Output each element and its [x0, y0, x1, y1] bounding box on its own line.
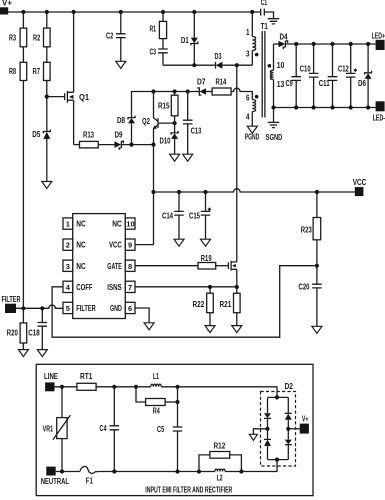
node aux phasing dot — [255, 95, 259, 99]
svg-text:R2: R2 — [33, 33, 41, 42]
svg-text:C3: C3 — [150, 47, 157, 56]
svg-text:VCC: VCC — [353, 178, 367, 187]
T1 secondary winding 10-13 — [270, 70, 273, 79]
capacitor C12 polarized — [350, 44, 352, 108]
svg-text:5: 5 — [66, 304, 70, 313]
capacitor C14 — [178, 192, 180, 211]
node Q2 emitter junction — [151, 143, 155, 147]
resistor R22 — [209, 287, 211, 293]
svg-text:D2: D2 — [285, 382, 294, 391]
ground C15 — [201, 239, 211, 246]
svg-text:V+: V+ — [2, 0, 12, 8]
T1 primary winding 1-3 — [251, 12, 253, 37]
resistor R13 — [80, 141, 99, 148]
ground C18 — [37, 350, 47, 357]
node bridge bottom — [268, 459, 289, 461]
diode D2a upper-left — [267, 397, 269, 413]
svg-text:FILTER: FILTER — [76, 304, 96, 313]
node FILTER pad — [5, 304, 16, 313]
svg-text:Q1: Q1 — [79, 93, 90, 102]
resistor RT1 — [77, 383, 96, 390]
ground D5 — [42, 182, 52, 189]
node drain junction — [235, 63, 239, 67]
node Q1 gate junction — [45, 95, 49, 99]
svg-text:NC: NC — [112, 220, 122, 229]
resistor R7 — [44, 62, 51, 80]
svg-text:9: 9 — [128, 241, 132, 250]
node VCC rail junction — [151, 190, 155, 194]
svg-text:R12: R12 — [214, 442, 226, 451]
op-amp U1 IC body — [73, 214, 126, 319]
wire Q1 drain to top rail — [73, 12, 75, 92]
pin 9 box — [125, 239, 135, 250]
pin 7 box — [125, 281, 135, 292]
svg-text:C9: C9 — [286, 79, 294, 88]
T1 aux winding 6-4 — [252, 100, 255, 112]
svg-text:R21: R21 — [220, 300, 232, 309]
wire pin4 to PGND — [251, 112, 253, 127]
wire LINE to RT1 — [55, 386, 77, 388]
wire L2 to bridge bottom — [225, 460, 277, 472]
svg-text:D4: D4 — [280, 33, 288, 42]
svg-text:LED-: LED- — [373, 114, 385, 123]
svg-text:10: 10 — [277, 61, 285, 70]
svg-text:LINE: LINE — [44, 372, 59, 381]
svg-text:D8: D8 — [117, 116, 125, 125]
wire M2 source to ISNS node — [236, 269, 238, 287]
pin 10 box — [125, 218, 135, 229]
ground PGND — [247, 126, 257, 133]
svg-text:4: 4 — [246, 113, 250, 122]
svg-text:R22: R22 — [193, 300, 205, 309]
svg-text:R19: R19 — [201, 254, 212, 263]
svg-text:D1: D1 — [181, 36, 189, 45]
svg-text:L1: L1 — [153, 372, 159, 381]
fuse F1 — [80, 466, 98, 473]
zener D7 — [197, 88, 201, 95]
node LED+ pad — [376, 40, 385, 50]
capacitor C20 — [316, 266, 318, 284]
ground D10 — [170, 154, 180, 161]
ground R21 — [232, 326, 242, 333]
svg-text:NEUTRAL: NEUTRAL — [41, 477, 69, 486]
wire VCC rail with hop — [154, 189, 355, 192]
wire R2-R7 — [46, 47, 48, 63]
svg-text:D6: D6 — [358, 79, 366, 88]
svg-text:C4: C4 — [99, 424, 107, 433]
node bridge left mid — [265, 427, 269, 431]
resistor R14 — [212, 88, 231, 95]
wire Q1 source corner to R13 — [74, 144, 80, 146]
wire Q2 emitter down — [153, 129, 155, 145]
svg-text:C13: C13 — [191, 126, 202, 135]
node LED- pad — [376, 101, 385, 111]
svg-text:D9: D9 — [115, 130, 123, 139]
node NEUTRAL pad — [46, 467, 55, 476]
ground C13 — [183, 154, 193, 161]
svg-text:NC: NC — [76, 241, 86, 250]
svg-text:SGND: SGND — [266, 133, 283, 142]
inductor L2 — [215, 469, 225, 471]
node V+ output pad — [300, 424, 309, 434]
svg-text:V+: V+ — [302, 415, 309, 424]
node R23/C20 junction — [315, 264, 319, 268]
resistor R2 — [46, 12, 48, 28]
svg-text:C2: C2 — [106, 31, 114, 40]
wire GATE pin8 to R19 — [135, 265, 198, 267]
svg-text:VCC: VCC — [109, 241, 122, 250]
wire R14 to pin6 with hop — [231, 88, 252, 99]
wire left rail R8 to FILTER node — [22, 81, 24, 309]
svg-text:D10: D10 — [160, 137, 171, 146]
node LED+ output rail dots — [294, 42, 298, 46]
wire F1 to L2 — [98, 471, 215, 473]
bridge rectifier D2 dashed box — [261, 392, 296, 467]
svg-text:R14: R14 — [216, 78, 227, 87]
wire R13 to D9 — [98, 144, 114, 146]
capacitor C5 — [177, 402, 179, 427]
capacitor C11 — [332, 44, 334, 108]
svg-text:NC: NC — [76, 220, 86, 229]
svg-text:2: 2 — [66, 241, 70, 250]
pin 6 box — [125, 302, 135, 313]
node VCC pad — [355, 187, 364, 196]
ground bridge minus — [249, 434, 257, 440]
svg-text:C15: C15 — [189, 211, 200, 220]
svg-text:R1: R1 — [150, 24, 157, 33]
svg-text:6: 6 — [246, 93, 250, 102]
resistor R8 — [20, 62, 27, 80]
pin 4 box — [63, 281, 73, 292]
svg-text:7: 7 — [128, 283, 132, 292]
svg-text:R7: R7 — [33, 67, 41, 76]
ground SGND earth — [268, 122, 280, 127]
transistor M2 MOSFET — [228, 261, 236, 271]
svg-text:L2: L2 — [217, 473, 223, 482]
diode D3 — [215, 62, 217, 69]
svg-text:C18: C18 — [28, 329, 40, 338]
svg-text:C20: C20 — [299, 282, 310, 291]
svg-text:R3: R3 — [9, 33, 16, 42]
resistor R21 — [236, 287, 238, 293]
diode D2d lower-right — [287, 429, 289, 440]
resistor R4 parallel with L1 — [136, 387, 146, 402]
wire LED- bottom rail — [274, 107, 376, 109]
wire drain vertical D3 to M2 — [236, 65, 238, 262]
pin 2 box — [63, 239, 73, 250]
resistor R3 — [22, 12, 24, 28]
wire NEUTRAL to F1 — [56, 471, 80, 473]
zener D8 — [128, 116, 135, 120]
svg-text:3: 3 — [66, 262, 70, 271]
resistor R23 — [316, 192, 318, 218]
node LINE pad — [45, 382, 54, 391]
capacitor C9 — [295, 44, 297, 108]
svg-text:R15: R15 — [158, 101, 170, 110]
svg-text:INPUT EMI FILTER AND RECTIFIER: INPUT EMI FILTER AND RECTIFIER — [145, 485, 232, 494]
svg-text:R8: R8 — [9, 67, 16, 76]
schottky D4 — [274, 43, 279, 45]
ground C1 earth — [268, 19, 280, 24]
zener D6 — [367, 44, 369, 73]
svg-text:R23: R23 — [301, 226, 312, 235]
svg-text:R4: R4 — [153, 406, 160, 415]
resistor R1 — [162, 12, 164, 21]
svg-text:10: 10 — [126, 220, 134, 229]
svg-text:3: 3 — [246, 49, 250, 58]
wire bridge plus to V+ pad — [288, 428, 299, 430]
node R4/C5 junction — [175, 400, 179, 404]
node bridge right mid — [286, 427, 290, 431]
svg-text:C1: C1 — [261, 0, 268, 7]
zener D10 — [174, 123, 176, 133]
svg-text:Q2: Q2 — [142, 117, 150, 126]
zener D1 — [193, 12, 195, 38]
node V+ input pad — [0, 7, 8, 14]
svg-text:COFF: COFF — [76, 283, 92, 292]
svg-text:C10: C10 — [300, 64, 311, 73]
ground C14 — [174, 239, 184, 246]
svg-text:GND: GND — [110, 304, 122, 313]
capacitor C4 — [113, 387, 115, 426]
EMI filter box — [36, 364, 313, 495]
capacitor C15 polarized — [205, 192, 207, 211]
wire D4 anode to pin 10 — [273, 44, 275, 70]
ground R22 — [205, 326, 215, 333]
svg-text:D5: D5 — [32, 130, 40, 139]
resistor R12 parallel with L2 — [199, 455, 210, 472]
capacitor C18 — [41, 308, 43, 322]
svg-text:VR1: VR1 — [43, 425, 54, 434]
svg-text:R20: R20 — [7, 329, 18, 338]
svg-text:LED+: LED+ — [372, 31, 385, 40]
capacitor C2 — [120, 12, 122, 34]
svg-text:1: 1 — [246, 28, 250, 37]
resistor R19 — [198, 263, 216, 270]
svg-text:R13: R13 — [83, 130, 94, 139]
svg-text:C14: C14 — [162, 211, 173, 220]
wire VCC vertical to pin 9 — [135, 145, 153, 245]
wire Q1 source down — [73, 100, 75, 144]
pin 3 box — [63, 260, 73, 271]
wire RT1 to L1 — [96, 386, 151, 388]
wire R7 to gate node — [46, 81, 48, 97]
capacitor C3 — [158, 49, 168, 53]
wire GND pin6 to ground — [135, 308, 149, 323]
diode D2c upper-right — [287, 397, 289, 413]
svg-text:D7: D7 — [197, 78, 206, 87]
wire R1-C3 — [162, 39, 164, 49]
zener D9 — [115, 141, 122, 148]
svg-text:PGND: PGND — [245, 132, 260, 141]
wire R19 to M2 gate — [216, 265, 229, 267]
wire snubber row to D3 — [163, 64, 216, 66]
svg-text:6: 6 — [128, 304, 132, 313]
wire pin13 to SGND and LED- rail — [273, 80, 275, 123]
T1 core — [262, 31, 265, 118]
svg-text:C11: C11 — [319, 79, 330, 88]
wire aux row D8 corner to D7 — [132, 92, 200, 118]
svg-text:1: 1 — [66, 220, 70, 229]
node D8 clamp junction — [129, 143, 133, 147]
svg-text:T1: T1 — [261, 22, 268, 31]
pin 8 box — [125, 260, 135, 271]
svg-text:C12: C12 — [338, 64, 349, 73]
svg-text:D3: D3 — [215, 52, 222, 61]
wire ISNS pin7 row — [135, 286, 237, 288]
svg-text:ISNS: ISNS — [107, 283, 122, 292]
wire L1 to bridge — [161, 387, 277, 398]
transistor Q2 — [142, 92, 175, 130]
svg-text:RT1: RT1 — [80, 372, 93, 381]
wire top rail V+ — [8, 11, 252, 13]
node secondary phasing dot — [268, 64, 272, 68]
ground C2 — [116, 61, 126, 68]
svg-text:8: 8 — [128, 262, 132, 271]
capacitor C1 — [252, 11, 260, 13]
capacitor C13 — [187, 92, 189, 121]
varistor VR1 — [61, 387, 63, 418]
resistor R15 — [174, 92, 176, 96]
wire R3-R8 — [22, 47, 24, 63]
wire FILTER node to pin5 with hop — [16, 305, 63, 308]
resistor R20 — [22, 308, 24, 323]
ground pin6 — [144, 323, 154, 330]
node R15/D10/base junction — [173, 121, 177, 125]
svg-text:F1: F1 — [86, 476, 93, 485]
capacitor C10 — [313, 44, 315, 108]
node primary phasing dot — [255, 53, 259, 57]
wire bridge minus to ground — [253, 429, 267, 435]
pin 1 box — [63, 218, 73, 229]
ground C20 — [312, 326, 322, 333]
transistor Q1 MOSFET — [65, 91, 90, 103]
zener D5 — [46, 97, 48, 132]
wire COFF pin4 to C20 node — [52, 266, 315, 338]
svg-text:GATE: GATE — [107, 262, 122, 271]
svg-text:C5: C5 — [157, 425, 165, 434]
diode D2b lower-left — [267, 429, 269, 439]
wire gate node to Q1 — [47, 96, 65, 98]
pin 5 box — [63, 302, 73, 313]
svg-text:FILTER: FILTER — [2, 295, 21, 304]
inductor L1 — [151, 384, 162, 387]
node bridge top — [275, 395, 279, 399]
svg-text:13: 13 — [277, 80, 285, 89]
svg-text:NC: NC — [76, 262, 86, 271]
ground R20 — [18, 350, 28, 357]
